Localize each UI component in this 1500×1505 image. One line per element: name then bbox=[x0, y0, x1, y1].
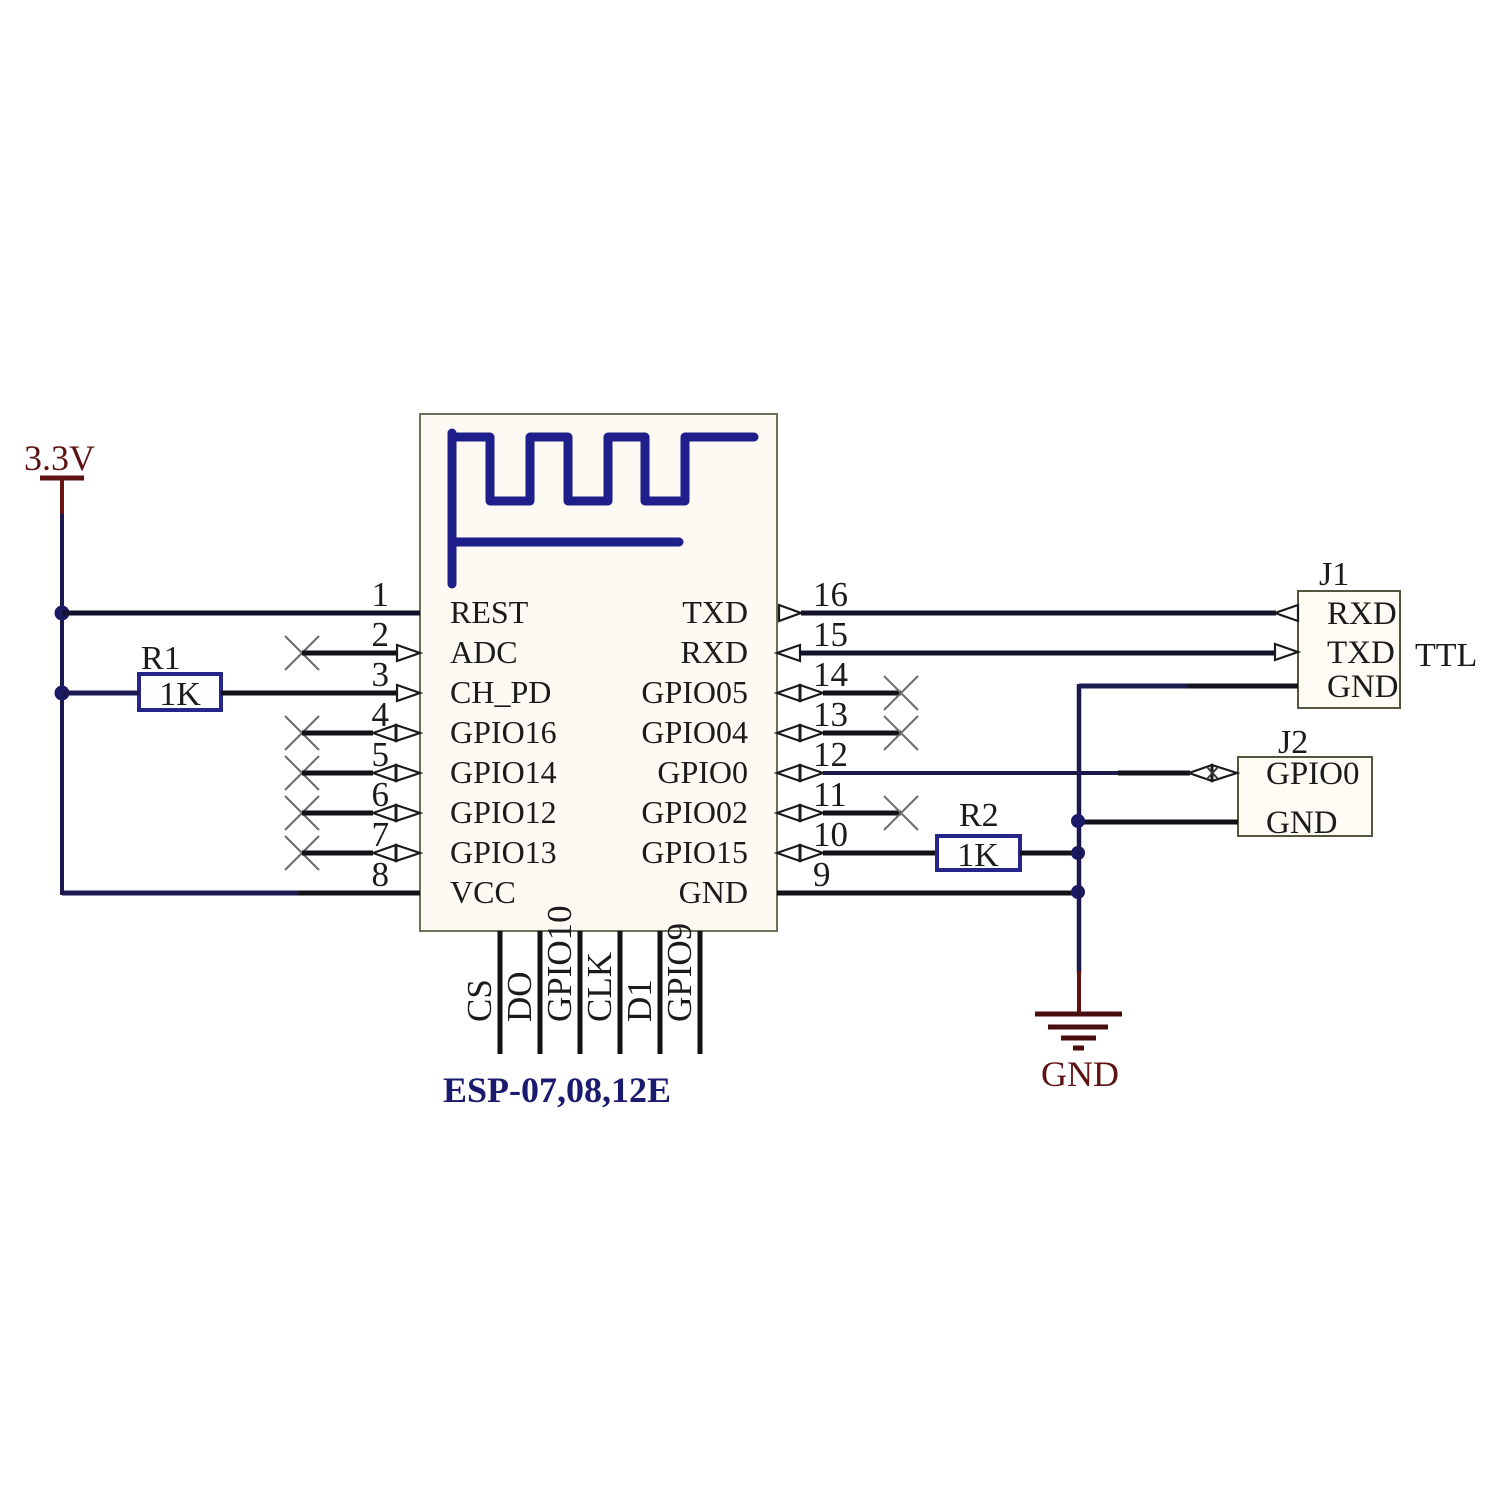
pin 10 wire GPIO15 bbox=[823, 851, 937, 856]
svg-text:11: 11 bbox=[813, 775, 847, 814]
svg-text:3: 3 bbox=[372, 655, 390, 694]
svg-text:TXD: TXD bbox=[682, 594, 748, 630]
pin 6 wire GPIO12 bbox=[302, 811, 373, 816]
pin 12 arrow bidirectional bbox=[777, 765, 823, 781]
no-connect X pin 2 bbox=[285, 636, 319, 670]
svg-text:R1: R1 bbox=[141, 640, 181, 677]
svg-text:9: 9 bbox=[813, 855, 831, 894]
pin 1 wire REST bbox=[62, 611, 420, 616]
wire J2 GND to bus bbox=[1078, 820, 1238, 825]
svg-text:13: 13 bbox=[813, 695, 848, 734]
svg-text:10: 10 bbox=[813, 815, 848, 854]
pin 14 wire GPIO05 bbox=[823, 691, 901, 696]
bottom pin GPIO9 bbox=[698, 931, 703, 1054]
pin 7 wire GPIO13 bbox=[302, 851, 373, 856]
bottom pin DO bbox=[538, 931, 543, 1054]
pin 3 wire CH_PD left bbox=[62, 691, 139, 696]
svg-text:1K: 1K bbox=[957, 837, 999, 874]
pin 11 wire GPIO02 bbox=[823, 811, 901, 816]
svg-text:TTL: TTL bbox=[1415, 637, 1477, 674]
svg-text:12: 12 bbox=[813, 735, 848, 774]
pin 2 wire ADC bbox=[302, 651, 398, 656]
node junction dot pin1 bus bbox=[55, 606, 70, 621]
svg-text:DO: DO bbox=[500, 971, 539, 1022]
pin 16 arrow out bbox=[779, 605, 801, 621]
pin 4 wire GPIO16 bbox=[302, 731, 373, 736]
svg-text:1K: 1K bbox=[159, 676, 201, 713]
wire R2 to GND bus bbox=[1020, 851, 1078, 856]
pin 13 wire GPIO04 bbox=[823, 731, 901, 736]
svg-text:RXD: RXD bbox=[1327, 596, 1397, 632]
ground symbol GND bbox=[1035, 971, 1122, 1094]
svg-text:15: 15 bbox=[813, 615, 848, 654]
svg-text:6: 6 bbox=[372, 775, 390, 814]
wire 3.3V vertical bus bbox=[60, 514, 64, 895]
svg-text:GPIO15: GPIO15 bbox=[641, 834, 748, 870]
svg-text:ESP-07,08,12E: ESP-07,08,12E bbox=[443, 1070, 671, 1110]
svg-text:GPIO9: GPIO9 bbox=[660, 923, 699, 1022]
module U1 ESP body bbox=[420, 414, 777, 931]
svg-text:CH_PD: CH_PD bbox=[450, 674, 551, 710]
svg-text:GND: GND bbox=[679, 874, 748, 910]
no-connect X pin 5 bbox=[285, 756, 319, 790]
pin 12 wire GPIO0 black bbox=[1118, 771, 1190, 776]
node junction dot J2 GND bbox=[1071, 814, 1085, 828]
pin 4 arrow bidirectional bbox=[373, 725, 420, 741]
svg-text:5: 5 bbox=[372, 735, 390, 774]
svg-text:GPIO12: GPIO12 bbox=[450, 794, 557, 830]
svg-text:4: 4 bbox=[372, 695, 390, 734]
J2 GPIO0 arrow bidirectional bbox=[1189, 765, 1237, 781]
no-connect X pin 14 bbox=[884, 676, 918, 710]
pin 14 arrow bidirectional bbox=[777, 685, 823, 701]
svg-text:GPIO16: GPIO16 bbox=[450, 714, 557, 750]
node junction dot R2 bbox=[1071, 846, 1085, 860]
pin 5 arrow bidirectional bbox=[373, 765, 420, 781]
bottom pin D1 bbox=[658, 931, 663, 1054]
no-connect X pin 4 bbox=[285, 716, 319, 750]
pin 10 arrow bidirectional bbox=[777, 845, 823, 861]
svg-text:ADC: ADC bbox=[450, 634, 518, 670]
svg-text:GPIO14: GPIO14 bbox=[450, 754, 557, 790]
pin 16 wire TXD bbox=[801, 611, 1276, 616]
svg-text:TXD: TXD bbox=[1327, 635, 1395, 671]
pin 11 arrow bidirectional bbox=[777, 805, 823, 821]
pin 2 arrow bbox=[397, 645, 420, 661]
svg-text:J1: J1 bbox=[1319, 556, 1349, 593]
svg-text:GPIO0: GPIO0 bbox=[1266, 756, 1360, 792]
svg-text:GPIO04: GPIO04 bbox=[641, 714, 748, 750]
svg-text:GPIO10: GPIO10 bbox=[540, 905, 579, 1022]
resistor R2 bbox=[937, 797, 1020, 874]
power symbol 3.3V bbox=[24, 438, 95, 515]
connector J2 bbox=[1238, 724, 1372, 841]
wire GND vertical bus bbox=[1077, 684, 1082, 973]
svg-text:8: 8 bbox=[372, 855, 390, 894]
svg-text:1: 1 bbox=[372, 575, 390, 614]
wire J1 GND to bus horizontal black bbox=[1188, 684, 1298, 689]
svg-text:16: 16 bbox=[813, 575, 848, 614]
pin 7 arrow bidirectional bbox=[373, 845, 420, 861]
pin 15 arrow in bbox=[777, 645, 800, 661]
pin 15 wire RXD bbox=[800, 651, 1276, 656]
no-connect X pin 7 bbox=[285, 836, 319, 870]
svg-text:VCC: VCC bbox=[450, 874, 516, 910]
pin 3 arrow bbox=[397, 685, 420, 701]
svg-text:14: 14 bbox=[813, 655, 848, 694]
bottom pin CLK bbox=[618, 931, 623, 1054]
svg-text:7: 7 bbox=[372, 815, 390, 854]
node junction dot pin3 bus bbox=[55, 686, 70, 701]
resistor R1 bbox=[139, 640, 221, 713]
pin 13 arrow bidirectional bbox=[777, 725, 823, 741]
svg-text:GPIO02: GPIO02 bbox=[641, 794, 748, 830]
pin 9 wire GND bbox=[777, 891, 1078, 896]
svg-text:GND: GND bbox=[1041, 1054, 1119, 1094]
pin 3 wire CH_PD right bbox=[221, 691, 398, 696]
svg-text:GND: GND bbox=[1327, 669, 1399, 705]
antenna symbol bbox=[452, 433, 754, 584]
node junction dot pin9 bbox=[1071, 885, 1085, 899]
pin 8 wire VCC right bbox=[298, 891, 420, 896]
svg-text:R2: R2 bbox=[959, 797, 999, 834]
no-connect X pin 11 bbox=[884, 796, 918, 830]
svg-text:CS: CS bbox=[460, 979, 499, 1022]
svg-text:GND: GND bbox=[1266, 805, 1338, 841]
svg-text:RXD: RXD bbox=[680, 634, 748, 670]
svg-text:GPIO05: GPIO05 bbox=[641, 674, 748, 710]
svg-text:3.3V: 3.3V bbox=[24, 438, 95, 478]
pin 12 wire GPIO0 navy bbox=[823, 771, 1120, 775]
svg-text:D1: D1 bbox=[620, 979, 659, 1022]
pin 6 arrow bidirectional bbox=[373, 805, 420, 821]
pin 5 wire GPIO14 bbox=[302, 771, 373, 776]
svg-text:REST: REST bbox=[450, 594, 529, 630]
bottom pin GPIO10 bbox=[578, 931, 583, 1054]
svg-text:2: 2 bbox=[372, 615, 390, 654]
bottom pin CS bbox=[498, 931, 503, 1054]
svg-text:GPIO0: GPIO0 bbox=[657, 754, 748, 790]
J1 TXD arrow bbox=[1275, 644, 1298, 660]
no-connect X pin 6 bbox=[285, 796, 319, 830]
J1 RXD arrow bbox=[1275, 605, 1298, 621]
connector J1 bbox=[1298, 556, 1400, 708]
pin 8 wire VCC left bbox=[62, 891, 300, 896]
svg-text:GPIO13: GPIO13 bbox=[450, 834, 557, 870]
svg-text:CLK: CLK bbox=[580, 952, 619, 1022]
wire J1 GND to bus horizontal navy bbox=[1079, 684, 1190, 689]
no-connect X pin 13 bbox=[884, 716, 918, 750]
